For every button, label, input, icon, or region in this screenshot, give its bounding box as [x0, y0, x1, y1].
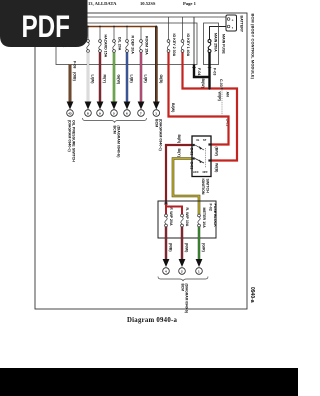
fuse block F-01 box	[56, 23, 197, 65]
ignition switch internals	[193, 138, 211, 174]
ignition switch label	[201, 179, 210, 195]
svg-text:F-03: F-03	[213, 68, 217, 75]
svg-text:B/(W): B/(W)	[171, 103, 175, 113]
svg-text:B/(W): B/(W)	[201, 79, 205, 89]
fuse feed stub 1	[87, 27, 89, 41]
svg-text:(DIAGRAM 0940-b): (DIAGRAM 0940-b)	[185, 284, 189, 313]
svg-text:BCM: BCM	[113, 126, 117, 134]
fuse D/L 20A	[113, 37, 122, 52]
bottom letterbox bar	[0, 368, 298, 396]
svg-text:(B/W): (B/W)	[215, 147, 219, 157]
junction wiper feed	[165, 202, 168, 205]
wire maroon ACC feed to wiper fuses	[166, 135, 192, 205]
wire red W/R bus upper	[183, 53, 238, 161]
fuse block F-01 label	[58, 24, 67, 48]
arrow into pin b	[97, 102, 104, 110]
wire R/Y from HAZARD fuse	[100, 53, 107, 103]
svg-text:PDF: PDF	[22, 8, 71, 44]
pin 43 oil pressure switch	[67, 110, 74, 117]
svg-text:MAIN FUSE: MAIN FUSE	[222, 34, 226, 54]
wire O/B to oil pressure switch	[70, 61, 77, 103]
pin c	[111, 110, 118, 117]
fuse block F-02 label	[209, 204, 218, 228]
arrow into pin f	[153, 102, 160, 110]
junction dot fuse3 feed	[113, 26, 115, 28]
svg-text:ST: ST	[203, 138, 207, 142]
fuse feed stub IG KEY 2	[168, 17, 170, 40]
svg-text:G/(W): G/(W)	[117, 75, 121, 85]
fuse R WIP 10A	[181, 208, 189, 227]
caption Diagram 0940-a	[127, 317, 177, 324]
svg-text:(R/B): (R/B)	[169, 243, 173, 252]
svg-text:IG KEY 1 40A: IG KEY 1 40A	[186, 34, 190, 57]
battery B+ wire to MAIN fuse	[210, 27, 227, 41]
svg-text:(O/B): (O/B)	[73, 72, 77, 82]
arrow into pin e	[138, 102, 145, 110]
connector dashed link	[221, 91, 223, 116]
svg-text:OFF: OFF	[203, 170, 209, 174]
svg-text:Page 1: Page 1	[183, 1, 197, 6]
wire red IG KEY 2 to ignition switch	[169, 53, 229, 145]
svg-text:FUSE BLOCK: FUSE BLOCK	[213, 204, 217, 228]
pin f BCM	[153, 110, 160, 117]
ignition switch right wire labels	[190, 147, 219, 174]
header text	[88, 1, 197, 6]
MAIN FUSE label	[222, 34, 226, 54]
svg-text:HAZARD 15A: HAZARD 15A	[104, 35, 108, 58]
svg-text:R. WIP 10A: R. WIP 10A	[185, 208, 189, 227]
svg-text:ROOM 15A: ROOM 15A	[145, 36, 149, 55]
brace BCM group	[83, 118, 147, 123]
svg-text:D/L 20A: D/L 20A	[118, 37, 122, 51]
arrow bottom pin 2	[179, 259, 186, 267]
wire black F-04 U join	[194, 65, 210, 89]
svg-text:O/(B): O/(B)	[159, 75, 163, 85]
wire F-04 battery feed stub	[193, 17, 195, 65]
bottom BCM label	[181, 284, 189, 313]
terminal F-04	[192, 68, 201, 76]
svg-text:(DIAGRAM 0940-b): (DIAGRAM 0940-b)	[117, 126, 121, 159]
svg-text:C-03: C-03	[219, 79, 223, 87]
svg-text:(R/W): (R/W)	[185, 243, 189, 253]
svg-text:IG KEY 2 30A: IG KEY 2 30A	[172, 34, 176, 57]
arrow into pin a	[85, 102, 92, 110]
bottom pin 1	[163, 268, 170, 275]
brace bottom BCM group	[158, 277, 208, 282]
wire W from fuse F1	[88, 53, 95, 103]
pin b	[97, 110, 104, 117]
wire yellow IG meter feed	[173, 149, 199, 215]
fuse F WIP 20A	[165, 208, 173, 227]
junction dot brown bus corner	[155, 26, 157, 28]
svg-text:BCM: BCM	[181, 284, 185, 292]
diagram frame	[35, 13, 247, 309]
svg-text:BCM (BODY CONTROL MODULE): BCM (BODY CONTROL MODULE)	[251, 14, 256, 80]
svg-text:SWITCH: SWITCH	[206, 179, 210, 194]
BCM diagram-b label	[113, 126, 121, 159]
svg-text:(DIAGRAM 0940-c): (DIAGRAM 0940-c)	[158, 119, 162, 152]
svg-text:AN: AN	[226, 92, 230, 98]
wire R/B front wiper out	[166, 227, 173, 260]
svg-text:F. WIP 20A: F. WIP 20A	[169, 208, 173, 227]
pin a	[85, 110, 92, 117]
svg-text:IG: IG	[197, 138, 200, 142]
net 0940-a label	[249, 287, 255, 303]
svg-text:L/(B): L/(B)	[130, 75, 134, 84]
arrow into pin d	[124, 102, 131, 110]
fuse F1 (hidden by badge)	[87, 40, 90, 53]
fuse R DEF 20A	[126, 36, 135, 55]
svg-text:R DEF 20A: R DEF 20A	[131, 36, 135, 55]
terminal F-03	[208, 68, 217, 76]
wire red F WIP feed	[165, 204, 167, 214]
svg-text:W/(R): W/(R)	[218, 92, 222, 102]
fusible link MAIN 250A	[208, 33, 218, 53]
junction main to red bus	[208, 87, 210, 89]
svg-text:0940-a: 0940-a	[249, 287, 255, 303]
fuse IG KEY 1 40A	[181, 34, 190, 57]
junction dot hazard feed	[87, 26, 89, 28]
BCM (BODY CONTROL MODULE) right margin label	[251, 14, 256, 80]
wire L/B from R DEF fuse	[127, 53, 134, 103]
svg-text:L/(W): L/(W)	[91, 75, 95, 85]
svg-text:(G/R): (G/R)	[202, 243, 206, 253]
svg-text:10.52SS: 10.52SS	[140, 1, 156, 6]
svg-text:L/(R): L/(R)	[144, 75, 148, 84]
wire W/B brown bus to BCM	[156, 27, 163, 105]
wire L/R from ROOM fuse	[141, 53, 148, 103]
fuse feed stub IG KEY 1	[182, 17, 184, 40]
svg-text:METER 10A: METER 10A	[202, 208, 206, 229]
svg-text:IGNITION: IGNITION	[201, 179, 205, 195]
fuse METER 10A	[198, 208, 206, 229]
fuse feed stub 5	[140, 27, 142, 41]
junction C-03 upper	[218, 79, 230, 102]
svg-text:F-04: F-04	[197, 68, 201, 75]
battery bus wire	[56, 16, 226, 18]
svg-text:BATTERY: BATTERY	[240, 16, 244, 33]
junction C-03 lower	[221, 115, 230, 126]
svg-text:F-08: F-08	[73, 61, 77, 68]
svg-text:MAIN 250A: MAIN 250A	[214, 33, 218, 52]
fuse IG KEY 2 30A	[167, 34, 176, 57]
bottom pin 3	[196, 268, 203, 275]
wire black main fuse to red bus	[208, 53, 210, 89]
bottom pin 2	[179, 268, 186, 275]
svg-text:13, ALLDATA: 13, ALLDATA	[88, 1, 117, 6]
MAIN fuse box	[204, 23, 219, 65]
junction dot fuse2 feed	[99, 26, 101, 28]
pin d	[124, 110, 131, 117]
battery label	[240, 16, 244, 33]
arrow bottom pin 1	[163, 259, 170, 267]
wire red R WIP branch	[166, 207, 182, 215]
arrow into pin 43	[67, 102, 74, 110]
arrow bottom pin 3	[196, 259, 203, 267]
fuse feed stub 3	[113, 27, 115, 41]
svg-text:R/(Y): R/(Y)	[103, 75, 107, 84]
battery BT-01	[226, 15, 237, 31]
svg-text:B/(Y): B/(Y)	[177, 149, 181, 158]
svg-text:C-01: C-01	[190, 148, 194, 156]
ignition switch box	[192, 136, 211, 177]
svg-text:W/(B): W/(B)	[215, 163, 219, 173]
wire R/W rear wiper out	[182, 227, 189, 260]
fuse HAZARD 15A	[99, 35, 108, 58]
svg-text:F-02: F-02	[209, 204, 213, 211]
wire G/W from D/L fuse	[114, 53, 121, 103]
svg-text:BCM: BCM	[154, 119, 158, 127]
svg-text:B/(R): B/(R)	[177, 135, 181, 144]
fuse block F-02 box	[158, 201, 216, 238]
fuse feed stub 2	[99, 27, 101, 41]
BCM diagram-c label	[154, 119, 162, 152]
PDF badge	[0, 0, 88, 47]
junction dot fuse4 feed	[126, 26, 128, 28]
svg-text:(DIAGRAM 0940-c): (DIAGRAM 0940-c)	[68, 120, 72, 153]
arrow into pin c	[111, 102, 118, 110]
svg-text:ACC: ACC	[193, 170, 199, 174]
fuse feed stub 4	[126, 27, 128, 41]
svg-text:Diagram 0940-a: Diagram 0940-a	[127, 317, 177, 324]
svg-text:43: 43	[68, 111, 72, 115]
fuse ROOM 15A	[140, 36, 149, 55]
oil pressure switch label	[68, 120, 76, 162]
wire G/R meter out	[199, 227, 206, 260]
brown feed bus wire	[56, 26, 156, 28]
pin e	[138, 110, 145, 117]
